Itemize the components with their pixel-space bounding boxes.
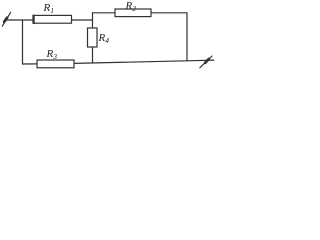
resistor R2 bbox=[115, 9, 151, 17]
resistor R3 bbox=[37, 60, 74, 68]
svg-text:R1: R1 bbox=[43, 2, 54, 15]
wire R1 to junction bbox=[72, 19, 93, 21]
terminal slash bottom-right bbox=[200, 56, 212, 68]
wire bottom rail middle bbox=[74, 61, 187, 64]
svg-text:R4: R4 bbox=[98, 32, 110, 45]
node junction vertical (top rails to R4) bbox=[92, 13, 94, 28]
terminal slash top-left bbox=[2, 12, 10, 26]
resistor R1 bbox=[33, 15, 72, 23]
resistor R4 bbox=[88, 28, 98, 47]
wire R4 to bottom rail bbox=[92, 47, 94, 62]
wire bottom rail left bbox=[23, 63, 38, 65]
wire R2 to right corner bbox=[151, 12, 187, 14]
svg-text:R2: R2 bbox=[125, 0, 137, 13]
wire right vertical edge bbox=[186, 13, 188, 61]
wire upper rail to R2 bbox=[93, 12, 116, 14]
wire top-left lead bbox=[5, 19, 33, 21]
svg-text:R3: R3 bbox=[46, 48, 58, 61]
wire left vertical edge bbox=[22, 20, 24, 64]
wire bottom rail right lead bbox=[187, 59, 214, 62]
